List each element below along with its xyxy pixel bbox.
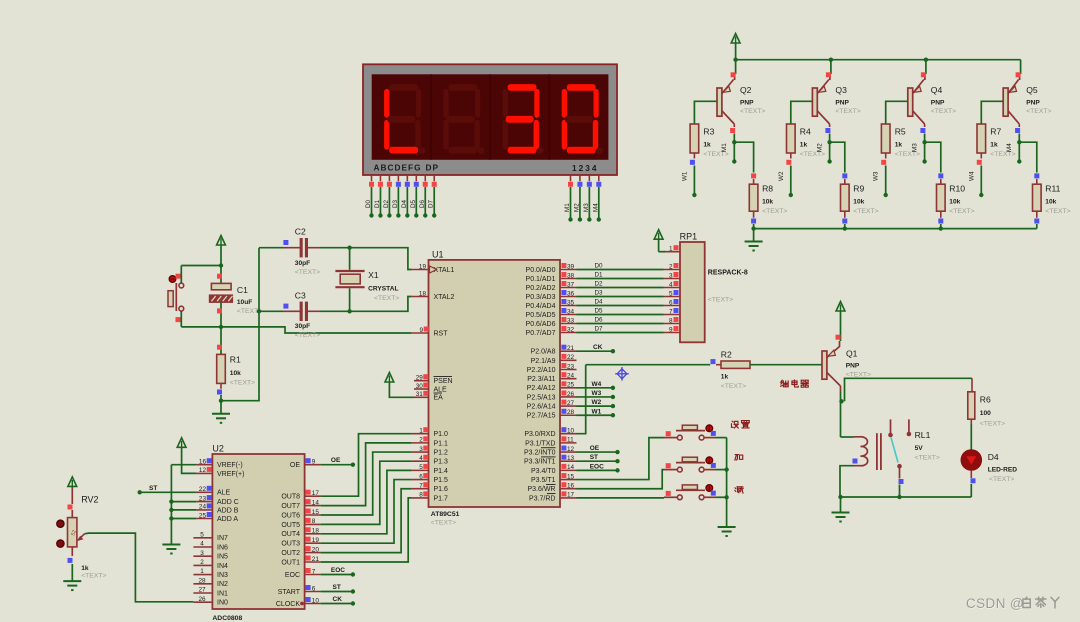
svg-text:X1: X1 [368, 270, 379, 280]
svg-text:D7: D7 [595, 326, 604, 333]
svg-text:PNP: PNP [931, 99, 945, 106]
svg-text:P3.0/RXD: P3.0/RXD [524, 431, 555, 438]
svg-text:R10: R10 [949, 184, 965, 194]
svg-text:<TEXT>: <TEXT> [708, 297, 733, 304]
svg-text:ADC0808: ADC0808 [212, 615, 242, 622]
svg-text:R1: R1 [230, 355, 241, 365]
svg-text:1: 1 [669, 245, 673, 252]
svg-text:IN3: IN3 [217, 572, 228, 579]
svg-text:3: 3 [200, 550, 204, 557]
svg-text:ABCDEFG: ABCDEFG [374, 163, 422, 173]
svg-text:D4: D4 [595, 299, 604, 306]
svg-text:10k: 10k [230, 370, 241, 377]
svg-text:P3.4/T0: P3.4/T0 [531, 468, 556, 475]
svg-text:OUT8: OUT8 [281, 494, 300, 501]
svg-text:OUT3: OUT3 [281, 541, 300, 548]
svg-text:P0.5/AD5: P0.5/AD5 [526, 312, 556, 319]
svg-text:R7: R7 [990, 127, 1001, 137]
svg-text:23: 23 [199, 495, 207, 502]
svg-text:<TEXT>: <TEXT> [1045, 208, 1070, 215]
svg-text:17: 17 [312, 490, 320, 497]
svg-text:XTAL1: XTAL1 [434, 267, 455, 274]
svg-text:CSDN @: CSDN @ [966, 596, 1024, 611]
svg-text:<TEXT>: <TEXT> [989, 476, 1014, 483]
svg-text:25: 25 [199, 512, 207, 519]
svg-text:OUT6: OUT6 [281, 512, 300, 519]
svg-text:6: 6 [312, 585, 316, 592]
svg-text:IN6: IN6 [217, 544, 228, 551]
svg-text:<TEXT>: <TEXT> [721, 383, 746, 390]
svg-text:9: 9 [669, 326, 673, 333]
svg-text:M2: M2 [573, 203, 580, 212]
svg-text:D1: D1 [374, 199, 381, 208]
svg-text:R2: R2 [721, 350, 732, 360]
svg-text:M4: M4 [1006, 143, 1013, 152]
svg-text:D3: D3 [392, 199, 399, 208]
svg-text:D6: D6 [419, 199, 426, 208]
svg-text:30pF: 30pF [295, 323, 310, 330]
svg-text:P1.5: P1.5 [434, 477, 449, 484]
svg-text:W3: W3 [592, 390, 602, 397]
svg-text:OUT5: OUT5 [281, 522, 300, 529]
svg-text:16: 16 [199, 459, 207, 466]
svg-text:OE: OE [290, 462, 300, 469]
svg-text:<TEXT>: <TEXT> [295, 332, 320, 339]
svg-text:P0.7/AD7: P0.7/AD7 [526, 330, 556, 337]
svg-text:28: 28 [198, 577, 206, 584]
svg-text:OUT2: OUT2 [281, 550, 300, 557]
svg-text:D4: D4 [401, 199, 408, 208]
svg-text:10k: 10k [853, 199, 864, 206]
svg-text:<TEXT>: <TEXT> [835, 108, 860, 115]
svg-text:IN0: IN0 [217, 600, 228, 607]
svg-text:100: 100 [980, 410, 991, 417]
svg-text:19: 19 [312, 537, 320, 544]
svg-text:<TEXT>: <TEXT> [853, 208, 878, 215]
svg-text:DP: DP [426, 163, 440, 173]
svg-text:P2.7/A15: P2.7/A15 [527, 413, 556, 420]
svg-text:D1: D1 [595, 272, 604, 279]
svg-text:8: 8 [312, 518, 316, 525]
svg-text:AT89C51: AT89C51 [431, 511, 460, 518]
svg-text:D2: D2 [383, 199, 390, 208]
svg-text:EA: EA [434, 395, 444, 402]
svg-text:IN1: IN1 [217, 590, 228, 597]
svg-text:D2: D2 [595, 281, 604, 288]
svg-text:P0.4/AD4: P0.4/AD4 [526, 303, 556, 310]
svg-text:<TEXT>: <TEXT> [230, 380, 255, 387]
svg-text:ALE: ALE [217, 490, 231, 497]
svg-text:R6: R6 [980, 395, 991, 405]
svg-text:D0: D0 [595, 263, 604, 270]
svg-text:37: 37 [567, 281, 575, 288]
svg-text:<TEXT>: <TEXT> [740, 108, 765, 115]
svg-text:<TEXT>: <TEXT> [81, 573, 106, 580]
svg-text:27: 27 [198, 587, 206, 594]
svg-text:CK: CK [333, 596, 343, 603]
svg-text:P1.2: P1.2 [434, 449, 449, 456]
svg-text:1234: 1234 [572, 163, 598, 173]
svg-text:M1: M1 [721, 143, 728, 152]
svg-text:<TEXT>: <TEXT> [931, 108, 956, 115]
svg-text:24: 24 [199, 504, 207, 511]
svg-text:C2: C2 [295, 227, 306, 237]
svg-text:3: 3 [669, 272, 673, 279]
svg-text:START: START [278, 589, 301, 596]
svg-text:P2.4/A12: P2.4/A12 [527, 385, 556, 392]
svg-text:5: 5 [669, 290, 673, 297]
svg-text:D7: D7 [428, 199, 435, 208]
svg-text:1k: 1k [721, 374, 729, 381]
svg-text:34: 34 [567, 308, 575, 315]
svg-text:D3: D3 [595, 290, 604, 297]
svg-text:P0.6/AD6: P0.6/AD6 [526, 321, 556, 328]
svg-text:<TEXT>: <TEXT> [431, 520, 456, 527]
svg-text:PNP: PNP [740, 99, 754, 106]
svg-text:ADD C: ADD C [217, 499, 239, 506]
svg-text:VREF(+): VREF(+) [217, 471, 244, 478]
svg-text:R11: R11 [1045, 184, 1060, 194]
svg-text:C1: C1 [237, 285, 248, 295]
svg-text:P3.2/INT0: P3.2/INT0 [524, 449, 556, 456]
svg-text:M2: M2 [816, 143, 823, 152]
svg-text:10k: 10k [1045, 199, 1056, 206]
svg-text:5V: 5V [915, 445, 924, 452]
svg-text:IN7: IN7 [217, 535, 228, 542]
svg-text:D6: D6 [595, 317, 604, 324]
svg-text:IN2: IN2 [217, 581, 228, 588]
svg-text:36: 36 [567, 290, 575, 297]
svg-text:R9: R9 [853, 184, 864, 194]
svg-text:P1.0: P1.0 [434, 431, 449, 438]
svg-text:CLOCK: CLOCK [276, 601, 300, 608]
svg-text:LED-RED: LED-RED [988, 466, 1018, 473]
svg-text:EOC: EOC [331, 567, 345, 574]
svg-text:10uF: 10uF [237, 299, 252, 306]
svg-text:32: 32 [567, 326, 575, 333]
svg-text:EOC: EOC [590, 463, 604, 470]
svg-text:P2.0/A8: P2.0/A8 [531, 349, 556, 356]
svg-text:W1: W1 [592, 408, 602, 415]
svg-text:18: 18 [312, 528, 320, 535]
svg-text:P1.1: P1.1 [434, 440, 449, 447]
svg-text:P1.4: P1.4 [434, 468, 449, 475]
svg-text:20: 20 [312, 546, 320, 553]
svg-text:M3: M3 [911, 143, 918, 152]
svg-text:10k: 10k [949, 199, 960, 206]
svg-text:P2.5/A13: P2.5/A13 [527, 394, 556, 401]
svg-text:OUT1: OUT1 [281, 559, 300, 566]
svg-text:OE: OE [331, 457, 341, 464]
svg-text:C3: C3 [295, 291, 306, 301]
svg-text:D5: D5 [410, 199, 417, 208]
svg-text:21: 21 [312, 556, 320, 563]
svg-text:4: 4 [669, 281, 673, 288]
svg-text:<TEXT>: <TEXT> [980, 421, 1005, 428]
svg-text:VREF(-): VREF(-) [217, 462, 243, 469]
svg-text:2: 2 [200, 559, 204, 566]
svg-text:P3.3/INT1: P3.3/INT1 [524, 459, 556, 466]
svg-text:CK: CK [593, 344, 603, 351]
svg-text:OUT7: OUT7 [281, 503, 300, 510]
svg-text:5: 5 [200, 531, 204, 538]
svg-text:D4: D4 [988, 452, 999, 462]
svg-text:PNP: PNP [1026, 99, 1040, 106]
svg-text:RL1: RL1 [915, 430, 931, 440]
svg-text:R8: R8 [762, 184, 773, 194]
svg-text:ST: ST [149, 485, 157, 492]
svg-text:R5: R5 [895, 127, 906, 137]
svg-text:1k: 1k [800, 142, 808, 149]
svg-text:M3: M3 [583, 203, 590, 212]
svg-text:RESPACK-8: RESPACK-8 [708, 270, 748, 277]
svg-text:RP1: RP1 [680, 232, 698, 242]
svg-text:10: 10 [312, 597, 320, 604]
svg-text:Q1: Q1 [846, 348, 858, 358]
svg-text:9: 9 [312, 459, 316, 466]
svg-text:P3.1/TXD: P3.1/TXD [525, 440, 555, 447]
svg-text:ALE: ALE [434, 386, 448, 393]
svg-text:P3.7/RD: P3.7/RD [529, 495, 555, 502]
svg-text:P2.2/A10: P2.2/A10 [527, 367, 556, 374]
svg-text:10k: 10k [762, 199, 773, 206]
svg-text:1: 1 [200, 568, 204, 575]
svg-text:P1.6: P1.6 [434, 486, 449, 493]
svg-text:1k: 1k [81, 565, 89, 572]
svg-text:38: 38 [567, 272, 575, 279]
svg-text:<TEXT>: <TEXT> [915, 455, 940, 462]
svg-text:P2.3/A11: P2.3/A11 [527, 376, 555, 383]
svg-text:P2.6/A14: P2.6/A14 [527, 404, 556, 411]
svg-text:P0.0/AD0: P0.0/AD0 [526, 267, 556, 274]
svg-text:Q3: Q3 [835, 85, 847, 95]
svg-text:33: 33 [567, 317, 575, 324]
svg-text:M1: M1 [564, 203, 571, 212]
svg-text:OE: OE [590, 445, 600, 452]
svg-text:XTAL2: XTAL2 [434, 294, 455, 301]
svg-text:15: 15 [312, 509, 320, 516]
svg-text:ST: ST [590, 454, 598, 461]
svg-text:7: 7 [669, 308, 673, 315]
svg-text:1k: 1k [703, 142, 711, 149]
svg-text:P0.3/AD3: P0.3/AD3 [526, 294, 556, 301]
svg-text:ST: ST [333, 584, 341, 591]
svg-text:30pF: 30pF [295, 260, 310, 267]
svg-text:U1: U1 [432, 250, 444, 260]
svg-text:4: 4 [200, 541, 204, 548]
svg-text:D0: D0 [365, 199, 372, 208]
svg-text:1k: 1k [895, 142, 903, 149]
svg-text:PSEN: PSEN [434, 378, 453, 385]
svg-text:6: 6 [669, 299, 673, 306]
svg-text:Q4: Q4 [931, 85, 943, 95]
svg-text:ADD B: ADD B [217, 507, 239, 514]
svg-text:35: 35 [567, 299, 575, 306]
svg-text:D5: D5 [595, 308, 604, 315]
svg-text:<TEXT>: <TEXT> [949, 208, 974, 215]
svg-text:W1: W1 [681, 171, 688, 181]
svg-text:CRYSTAL: CRYSTAL [368, 285, 398, 292]
svg-text:R3: R3 [703, 127, 714, 137]
svg-text:<TEXT>: <TEXT> [762, 208, 787, 215]
svg-text:Q2: Q2 [740, 85, 752, 95]
svg-text:14: 14 [312, 499, 320, 506]
svg-text:<TEXT>: <TEXT> [1026, 108, 1051, 115]
svg-text:P1.7: P1.7 [434, 495, 449, 502]
svg-text:Q5: Q5 [1026, 85, 1038, 95]
svg-text:P0.1/AD1: P0.1/AD1 [526, 276, 556, 283]
svg-text:P3.5/T1: P3.5/T1 [531, 477, 556, 484]
svg-text:RST: RST [434, 330, 449, 337]
svg-text:EOC: EOC [285, 572, 300, 579]
svg-text:26: 26 [198, 596, 206, 603]
svg-text:M4: M4 [592, 203, 599, 212]
svg-text:IN4: IN4 [217, 563, 228, 570]
svg-text:7: 7 [312, 568, 316, 575]
svg-text:W4: W4 [968, 171, 975, 181]
svg-text:PNP: PNP [835, 99, 849, 106]
svg-text:W2: W2 [778, 171, 785, 181]
svg-text:2: 2 [669, 263, 673, 270]
svg-text:8: 8 [669, 317, 673, 324]
svg-text:1k: 1k [990, 142, 998, 149]
svg-text:W4: W4 [592, 381, 602, 388]
svg-text:P3.6/WR: P3.6/WR [527, 486, 555, 493]
svg-text:ADD A: ADD A [217, 516, 238, 523]
svg-text:W3: W3 [873, 171, 880, 181]
svg-text:RV2: RV2 [81, 495, 98, 505]
svg-text:PNP: PNP [846, 362, 860, 369]
svg-text:W2: W2 [592, 399, 602, 406]
svg-text:22: 22 [199, 486, 207, 493]
svg-text:P1.3: P1.3 [434, 459, 449, 466]
svg-text:R4: R4 [800, 127, 811, 137]
svg-text:39: 39 [567, 263, 575, 270]
svg-text:<TEXT>: <TEXT> [374, 295, 399, 302]
svg-text:P0.2/AD2: P0.2/AD2 [526, 285, 556, 292]
svg-text:12: 12 [199, 467, 207, 474]
svg-text:OUT4: OUT4 [281, 531, 300, 538]
svg-text:<TEXT>: <TEXT> [295, 269, 320, 276]
svg-text:P2.1/A9: P2.1/A9 [531, 358, 556, 365]
svg-text:IN5: IN5 [217, 554, 228, 561]
svg-text:U2: U2 [212, 443, 224, 453]
